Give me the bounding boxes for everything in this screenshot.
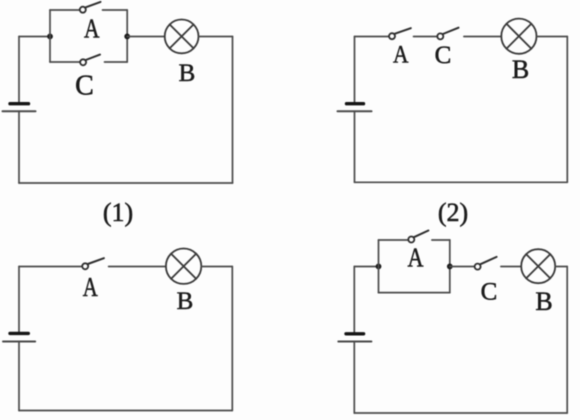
battery BT1 short thick plate — [10, 102, 29, 105]
battery BT2 long thin plate — [338, 110, 372, 112]
switch A lever — [85, 2, 100, 8]
wire: left vertical lower segment — [354, 111, 356, 182]
wire: node to switch C — [450, 266, 475, 268]
switch A lever — [395, 28, 411, 34]
switch C lever — [443, 28, 459, 34]
svg-text:A: A — [408, 242, 424, 272]
wire: right vertical — [566, 37, 568, 183]
lamp B cross — [526, 254, 550, 278]
lamp B circle — [165, 20, 199, 54]
battery BT4 long thin plate — [338, 341, 371, 343]
lamp B cross — [171, 254, 196, 279]
svg-text:(1): (1) — [103, 198, 133, 227]
wire: parallel box right vertical — [449, 240, 451, 293]
wire: left vertical upper segment — [353, 267, 355, 334]
switch A pivot circle — [80, 7, 86, 13]
wire: bottom wire — [355, 181, 568, 183]
lamp B cross — [170, 25, 194, 49]
wire: top wire to node — [19, 36, 50, 38]
svg-text:B: B — [512, 55, 529, 84]
switch A lever — [414, 231, 429, 238]
wire: left vertical lower segment — [18, 342, 20, 411]
wire: lamp to right corner — [201, 266, 232, 268]
wire: lamp to right corner — [537, 36, 568, 38]
wire: right vertical — [231, 267, 233, 411]
svg-text:C: C — [481, 279, 498, 306]
wire: left vertical lower segment — [18, 111, 20, 183]
wire: bottom wire — [19, 410, 232, 412]
wire: left vertical upper segment — [18, 37, 20, 104]
wire: parallel box right vertical — [126, 10, 128, 62]
svg-text:(2): (2) — [438, 198, 468, 227]
wire: top wire to switch A — [19, 266, 82, 268]
wire: left vertical upper segment — [18, 267, 20, 334]
battery BT2 short thick plate — [347, 102, 364, 105]
switch A pivot circle — [82, 263, 88, 269]
switch C pivot circle — [437, 33, 443, 39]
wire: bottom wire — [19, 182, 233, 184]
switch C lever — [86, 55, 100, 60]
wire: bottom branch left segment — [50, 61, 80, 63]
svg-text:B: B — [177, 288, 194, 315]
wire: bottom wire — [354, 412, 567, 414]
wire: box top branch right segment — [432, 239, 450, 241]
battery BT3 long thin plate — [3, 341, 35, 343]
svg-text:C: C — [75, 70, 94, 101]
switch A pivot circle — [389, 33, 395, 39]
node left junction dot — [47, 34, 53, 40]
svg-text:A: A — [84, 13, 100, 43]
lamp B cross — [507, 24, 532, 49]
switch A lever — [88, 258, 104, 264]
switch C lever — [480, 257, 496, 264]
wire: switch C to lamp — [501, 266, 521, 268]
wire: bottom branch right segment — [105, 61, 128, 63]
wire: node to lamp — [127, 36, 165, 38]
switch C pivot circle — [475, 264, 481, 270]
wire: top branch left segment — [50, 9, 80, 11]
battery BT1 long thin plate — [3, 110, 36, 112]
wire: top wire to left node — [354, 266, 378, 268]
node left junction dot — [376, 264, 382, 270]
wire: top branch right segment — [103, 9, 128, 11]
node right junction dot — [447, 264, 453, 270]
wire: left vertical upper segment — [354, 37, 356, 104]
wire: left vertical lower segment — [353, 342, 355, 414]
wire: lamp to right corner — [555, 266, 567, 268]
node right junction dot — [124, 34, 130, 40]
svg-text:B: B — [535, 287, 552, 316]
switch A pivot circle — [408, 237, 414, 243]
lamp B circle — [521, 249, 555, 283]
svg-text:A: A — [83, 272, 98, 302]
wire: lamp to right corner — [199, 36, 233, 38]
wire: switch to lamp — [109, 266, 166, 268]
battery BT4 short thick plate — [346, 332, 364, 335]
wire: between switches — [414, 36, 438, 38]
wire: box top branch left segment — [379, 239, 409, 241]
wire: right vertical — [232, 37, 234, 184]
lamp B circle — [501, 19, 536, 54]
wire: parallel box left vertical — [378, 240, 380, 293]
wire: switch C to lamp — [464, 36, 501, 38]
svg-text:B: B — [179, 60, 196, 87]
wire: parallel box left vertical — [49, 10, 51, 62]
svg-text:C: C — [435, 42, 452, 69]
svg-text:A: A — [393, 42, 409, 69]
lamp B circle — [166, 249, 201, 284]
wire: top wire to switch A — [355, 36, 390, 38]
wire: box bottom branch — [379, 292, 450, 294]
switch C pivot circle — [80, 59, 86, 65]
wire: right vertical — [566, 267, 568, 414]
battery BT3 short thick plate — [10, 332, 28, 335]
